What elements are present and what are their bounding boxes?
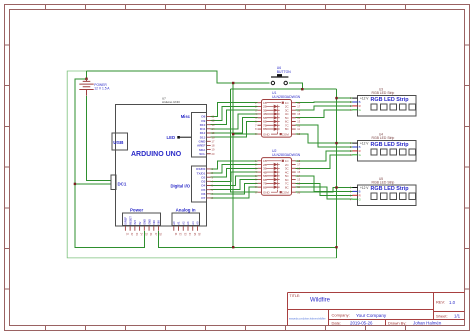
- darlington driver U2 ULN2803ADWGN: [255, 149, 301, 195]
- RGB LED Strip U4: [350, 133, 416, 161]
- wire U1 COM to rail: [296, 134, 337, 143]
- svg-text:1/1: 1/1: [454, 313, 461, 318]
- svg-text:G: G: [359, 197, 361, 201]
- wire +12V tap to strip U5: [337, 187, 353, 189]
- svg-text:USB: USB: [113, 140, 124, 146]
- wire D11 to U1 4B: [211, 114, 258, 129]
- svg-text:VIN: VIN: [152, 220, 156, 224]
- wire +12V tap to strip U3: [337, 97, 353, 99]
- svg-text:BUTTON: BUTTON: [277, 70, 291, 74]
- wire +12V top rail battery to button: [87, 71, 270, 83]
- wire TX/D1 to U2 2B: [211, 165, 258, 174]
- node DC1 GND junction: [74, 183, 76, 185]
- wire D8 to U1 1B: [211, 103, 258, 117]
- svg-text:A5: A5: [196, 221, 200, 225]
- svg-text:RGB LED Strip: RGB LED Strip: [371, 97, 410, 103]
- wire D5 to U2 6B: [211, 180, 258, 190]
- wire U2 3C to strip U4 G: [296, 155, 353, 169]
- wire D6 to U2 7B: [211, 183, 258, 194]
- wire +12V strip rail vertical: [336, 89, 338, 258]
- USB connector: [112, 133, 128, 150]
- svg-text:A1: A1: [177, 221, 181, 225]
- svg-text:easyeda.com/johan.halmen/wildf: easyeda.com/johan.halmen/wildfire: [289, 316, 326, 320]
- wire U2 8C to strip U5 G: [296, 187, 353, 199]
- pushbutton U6 BUTTON: [271, 66, 291, 85]
- svg-text:DC1: DC1: [118, 182, 127, 187]
- svg-text:ARDUINO UNO: ARDUINO UNO: [131, 151, 182, 158]
- svg-text:Misc: Misc: [181, 114, 191, 119]
- svg-text:Drawn By:: Drawn By:: [388, 320, 406, 325]
- svg-text:Power: Power: [130, 208, 143, 213]
- svg-text:Your Company: Your Company: [356, 313, 387, 318]
- darlington driver U1 ULN2803ADWGN: [255, 91, 301, 137]
- wire U2 COM to rail: [296, 188, 337, 193]
- svg-text:A2: A2: [181, 221, 185, 225]
- svg-text:GND: GND: [143, 219, 147, 225]
- svg-text:Date:: Date:: [332, 320, 342, 325]
- svg-text:+12 V: +12 V: [360, 186, 369, 190]
- svg-text:ULN2803ADWGN: ULN2803ADWGN: [272, 153, 301, 157]
- wire GND branch battery to bottom loop: [75, 79, 144, 248]
- wire D7 to U2 8B: [211, 187, 258, 198]
- svg-text:1.0: 1.0: [449, 300, 456, 305]
- svg-text:VIN: VIN: [157, 220, 161, 224]
- svg-text:LED: LED: [167, 135, 176, 140]
- svg-text:IOREF: IOREF: [124, 216, 128, 224]
- svg-text:RGB LED Strip: RGB LED Strip: [372, 181, 395, 185]
- wire GND to DC1 pin 2: [75, 183, 112, 185]
- node bottom rail junction at GND net: [232, 246, 234, 248]
- svg-text:+12 V: +12 V: [360, 97, 369, 101]
- svg-text:2019-05-26: 2019-05-26: [350, 321, 373, 326]
- svg-text:RGB LED Strip: RGB LED Strip: [372, 91, 395, 95]
- wire U1 3C to strip U3 R: [296, 106, 353, 110]
- wire U1 1C to strip U3 B: [296, 101, 353, 104]
- wire +12V tap to strip U4: [337, 142, 353, 144]
- node strip U4 +12V junction: [335, 142, 337, 144]
- node strip U3 +12V junction: [335, 97, 337, 99]
- svg-text:GND: GND: [263, 132, 271, 136]
- wire battery minus to DC1 pin 1: [87, 96, 112, 181]
- wire U1 7C to strip U4 B: [296, 125, 353, 147]
- svg-text:Wildfire: Wildfire: [310, 297, 331, 303]
- svg-text:A0: A0: [172, 221, 176, 225]
- node U1 GND tap junction: [232, 133, 234, 135]
- wire D2 to U2 3B: [211, 168, 258, 177]
- svg-text:5V: 5V: [138, 221, 142, 224]
- svg-text:A4: A4: [191, 221, 195, 225]
- svg-text:Arduino UNO: Arduino UNO: [162, 100, 181, 104]
- wire D9 to U1 2B: [211, 106, 258, 120]
- wire U2 5C to strip U5 B: [296, 176, 353, 192]
- svg-text:D7: D7: [201, 196, 205, 200]
- svg-text:GND: GND: [263, 190, 271, 194]
- node +12V rail bottom junction: [335, 246, 337, 248]
- svg-text:Digital I/O: Digital I/O: [170, 183, 190, 188]
- Arduino Analog In pin group: [172, 213, 200, 225]
- wire U1 5C to strip U3 G: [296, 110, 353, 118]
- DC barrel jack DC1: [111, 175, 116, 190]
- wire bottom GND rail from Arduino power pin: [159, 231, 337, 248]
- wire D13 to U1 6B: [211, 121, 258, 137]
- wire button output loop: [231, 83, 337, 192]
- wire RX/D0 to U2 1B: [211, 161, 258, 169]
- svg-text:Johan Halmén: Johan Halmén: [413, 321, 442, 326]
- svg-text:Analog In: Analog In: [176, 208, 196, 213]
- svg-text:REV:: REV:: [436, 300, 445, 305]
- wire D12 to U1 5B: [211, 118, 258, 133]
- wire D10 to U1 3B: [211, 110, 258, 125]
- svg-text:RGB LED Strip: RGB LED Strip: [372, 136, 395, 140]
- svg-text:RESET: RESET: [128, 216, 132, 225]
- svg-text:3V3: 3V3: [133, 220, 137, 225]
- svg-text:RGB LED Strip: RGB LED Strip: [371, 142, 410, 148]
- RGB LED Strip U5: [350, 177, 416, 205]
- svg-text:RGB LED Strip: RGB LED Strip: [371, 186, 410, 192]
- wire U2 7C to strip U5 R: [296, 183, 353, 195]
- wire node net vertical to U1 GND and bottom rail: [232, 83, 234, 247]
- power supply battery POWER 12V 1.5A: [79, 79, 93, 96]
- Arduino UNO U7 main body: [116, 105, 207, 227]
- node button feed junction: [232, 82, 234, 84]
- wire U2 1C to strip U4 R: [296, 151, 353, 161]
- svg-text:GND: GND: [147, 219, 151, 225]
- wire D3 to U2 4B: [211, 172, 258, 181]
- wire to U1 GND pin: [233, 133, 257, 135]
- wire +12V long rail to LED strips: [67, 71, 336, 258]
- svg-text:12 V 1.5 A: 12 V 1.5 A: [94, 86, 110, 90]
- svg-text:G: G: [359, 108, 361, 112]
- node battery positive junction: [85, 78, 87, 80]
- svg-text:ULN2803ADWGN: ULN2803ADWGN: [272, 95, 301, 99]
- svg-text:8B: 8B: [263, 127, 267, 131]
- svg-text:A3: A3: [186, 221, 190, 225]
- wire D4 to U2 5B: [211, 176, 258, 186]
- svg-text:8B: 8B: [263, 185, 267, 189]
- title block: [288, 293, 465, 326]
- Arduino Digital I/O pin group: [192, 166, 207, 202]
- svg-text:COM: COM: [282, 132, 290, 136]
- svg-text:COM: COM: [282, 190, 290, 194]
- svg-text:Sheet:: Sheet:: [436, 313, 448, 318]
- svg-text:SCL: SCL: [199, 152, 205, 156]
- node button return junction: [301, 88, 303, 90]
- RGB LED Strip U3: [350, 88, 416, 116]
- svg-text:G: G: [359, 153, 361, 157]
- Arduino Power pin group: [123, 213, 161, 225]
- svg-text:+12 V: +12 V: [360, 142, 369, 146]
- node strip U5 +12V junction: [335, 186, 337, 188]
- svg-text:Company:: Company:: [332, 313, 350, 318]
- svg-text:TITLE:: TITLE:: [290, 294, 301, 298]
- Arduino Misc pin group: [192, 112, 207, 157]
